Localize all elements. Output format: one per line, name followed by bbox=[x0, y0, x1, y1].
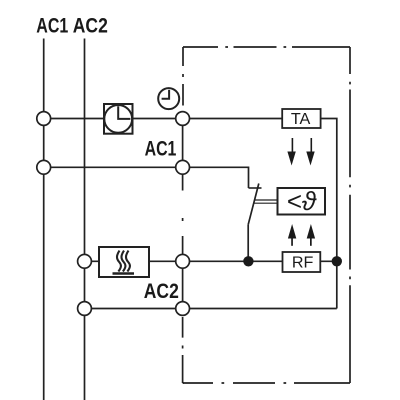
svg-text:TA: TA bbox=[291, 111, 311, 128]
border right edge bbox=[349, 47, 351, 383]
switch S1 fixed contact tick bbox=[249, 187, 262, 189]
terminal circle AC1 row1 bbox=[37, 112, 51, 126]
wire node column row3-row4 bbox=[182, 261, 184, 315]
arrow up left bbox=[291, 239, 293, 246]
terminal circle AC1 row2 bbox=[37, 160, 51, 174]
svg-text:AC2: AC2 bbox=[144, 280, 179, 303]
wire node column row1-row2 bbox=[182, 112, 184, 168]
wire row3 AC2 to RF bbox=[85, 260, 337, 262]
border left edge bottom segment bbox=[183, 317, 184, 383]
enclosure dash-dot border bbox=[183, 47, 350, 383]
svg-text:AC1: AC1 bbox=[36, 14, 68, 37]
wire AC2 supply vertical bbox=[84, 39, 86, 400]
clock symbol (program timer) bbox=[158, 88, 179, 109]
node junction dot left of RF bbox=[243, 256, 253, 266]
switch S1 lower wire bbox=[247, 225, 249, 262]
timer U1 clock hands bbox=[118, 106, 130, 119]
timer U1 square bbox=[104, 104, 133, 134]
arrow up right bbox=[310, 239, 312, 246]
svg-text:AC1: AC1 bbox=[145, 137, 177, 160]
wire row1 AC1 to TA bbox=[44, 118, 283, 120]
switch S1 blade bbox=[248, 184, 259, 225]
svg-text:AC2: AC2 bbox=[73, 14, 108, 37]
heater E1 heat waves bbox=[117, 251, 130, 272]
terminal circle node AC2 device bbox=[176, 254, 190, 268]
timer U1 clock circle bbox=[104, 105, 132, 133]
thermostat box bbox=[278, 188, 326, 215]
border left edge top segment bbox=[182, 47, 184, 106]
wire TA output down right side bbox=[321, 119, 337, 309]
terminal circle AC2 row3 bbox=[78, 254, 92, 268]
svg-text:<ϑ: <ϑ bbox=[287, 186, 317, 216]
wire row4 AC2 return bbox=[85, 308, 337, 310]
svg-text:RF: RF bbox=[292, 254, 314, 271]
arrow down left bbox=[287, 138, 315, 246]
terminal circle row4 device bbox=[176, 302, 190, 316]
border top edge bbox=[183, 46, 350, 48]
node junction dot right of RF bbox=[332, 256, 342, 266]
terminal circle row2 device bbox=[176, 160, 190, 174]
linkage double line to thermostat bbox=[254, 200, 278, 203]
terminal circle AC2 row4 bbox=[78, 302, 92, 316]
clock symbol hands bbox=[162, 90, 170, 99]
heater E1 box bbox=[99, 247, 149, 277]
wire row2 AC1 branch bbox=[44, 167, 249, 188]
terminal circle node AC1 device bbox=[176, 112, 190, 126]
wire AC1 supply vertical bbox=[43, 39, 45, 400]
RF box bbox=[283, 252, 321, 272]
TA box bbox=[282, 109, 320, 128]
heater E1 base line bbox=[113, 272, 135, 274]
border left edge between row2 and row3 bbox=[182, 174, 184, 254]
border bottom edge bbox=[183, 382, 350, 384]
arrow down right bbox=[311, 138, 313, 152]
